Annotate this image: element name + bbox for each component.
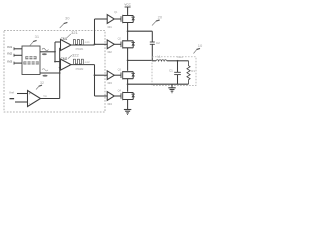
wire buffer4 to gate (114, 95, 121, 97)
svg-text:IN2: IN2 (7, 52, 12, 56)
opamp input wire + (17, 93, 28, 95)
input wire 3 (14, 62, 22, 64)
svg-text:C1: C1 (169, 69, 173, 73)
carrier value smudge (42, 53, 47, 55)
transistor Q3 (121, 71, 133, 79)
wire bottom rail node B to load (128, 83, 189, 85)
node carrier-top junction (54, 51, 56, 53)
VCC stem (127, 7, 129, 16)
transistor Q1 (121, 15, 133, 23)
node signal-feedback junction (59, 72, 61, 74)
label 321 leader (67, 34, 71, 38)
wire pwm2 bus vertical (94, 65, 96, 96)
node AB junction (127, 60, 129, 62)
VCC bar (125, 6, 131, 8)
svg-text:PWM1: PWM1 (76, 47, 84, 51)
input terminal 1 tick (13, 47, 15, 50)
label 32 leader (36, 86, 39, 90)
node pwm1-buffer2 junction (94, 43, 96, 45)
svg-text:L1: L1 (157, 55, 161, 59)
svg-text:out1: out1 (85, 41, 90, 44)
transistor Q4 (121, 92, 133, 100)
feedback squiggle mark (42, 69, 48, 71)
wire carrier out of block (40, 51, 55, 53)
label 31 leader (30, 41, 34, 45)
node carrier-comp2 junction (54, 61, 56, 63)
wire opamp output (41, 98, 60, 100)
wire M3 source to node B (127, 79, 129, 92)
node pwm2-buffer3 junction (94, 74, 96, 76)
wire pwm2 to buffer3 (95, 74, 108, 76)
block 31 text line2 (23, 61, 38, 64)
label 20 leader (152, 21, 157, 26)
wire carrier bus vertical (54, 42, 56, 62)
svg-text:331: 331 (107, 25, 112, 29)
feedback value smudge (43, 75, 48, 77)
op-amp 32 error amplifier (28, 91, 41, 107)
wire vout to resistor top (178, 60, 189, 62)
svg-text:Q3: Q3 (118, 69, 122, 72)
square wave symbol comp1 (73, 40, 83, 45)
wire pwm1 to buffer1 (95, 18, 108, 20)
wire M2 source to node AB (127, 48, 129, 71)
node Vout junction (177, 60, 179, 62)
wire signal bus vertical (59, 48, 61, 99)
svg-text:334: 334 (107, 102, 112, 106)
diode D1 (131, 16, 135, 23)
label 10 leader (194, 49, 198, 53)
diode D3 (131, 72, 135, 79)
dashed box 10 (output filter) (152, 57, 196, 86)
square wave symbol comp2 (73, 59, 83, 64)
wire pwm1 bus vertical (94, 19, 96, 45)
wire inductor to vout node (167, 60, 178, 62)
node B junction (127, 83, 129, 85)
inductor L1 (156, 60, 167, 61)
wire node AB to filter (128, 59, 153, 61)
comparator 322 (61, 59, 72, 70)
opamp input wire - (15, 101, 28, 103)
buffer 333 (107, 71, 114, 80)
wire signal to comp1 - (60, 47, 61, 49)
svg-text:CM2: CM2 (61, 57, 68, 61)
sine wave symbol (42, 48, 48, 51)
ground (output) (168, 88, 175, 93)
wire node A to cap (128, 30, 153, 32)
wire cap C2 drop (151, 31, 153, 42)
transistor Q2 (121, 40, 133, 48)
svg-text:Vm: Vm (43, 94, 47, 98)
wire comp1 output (71, 44, 95, 46)
input terminal 2 tick (13, 54, 15, 57)
wire feedback out of block bottom (40, 72, 60, 74)
wire filter node to inductor (152, 60, 156, 62)
capacitor C2 (150, 42, 155, 44)
svg-text:IN1: IN1 (7, 45, 12, 49)
svg-text:Vref: Vref (9, 90, 14, 94)
opamp input dash label (10, 98, 15, 99)
svg-text:Q2: Q2 (118, 38, 122, 41)
resistor R1 (187, 61, 190, 84)
svg-text:322: 322 (72, 53, 79, 58)
diode D2 (131, 41, 135, 48)
input terminal 3 tick (13, 62, 15, 65)
svg-text:333: 333 (107, 81, 112, 85)
svg-text:R1: R1 (191, 69, 195, 73)
svg-text:332: 332 (107, 50, 112, 54)
svg-text:20: 20 (158, 15, 163, 20)
node filter-in junction (151, 60, 153, 62)
capacitor C1 lead top (177, 61, 179, 73)
svg-text:out2: out2 (85, 61, 90, 64)
wire carrier to comp1 + (55, 41, 61, 43)
buffer 334 (107, 92, 114, 101)
wire buffer3 to gate (114, 74, 121, 76)
input wire 1 (14, 48, 22, 50)
buffer 332 (107, 40, 114, 49)
svg-text:PWM2: PWM2 (76, 67, 84, 71)
svg-text:10: 10 (198, 43, 203, 48)
svg-text:Vout: Vout (177, 55, 183, 59)
wire M4 source to ground (127, 100, 129, 110)
dashed box 30 (modulator section) (4, 31, 105, 113)
block 31 (triangle wave generator) (22, 46, 40, 75)
wire cap C2 to filter node (151, 44, 153, 60)
svg-text:+: + (29, 92, 31, 96)
svg-text:-: - (29, 102, 30, 106)
label 30 leader (60, 23, 65, 28)
node A junction (127, 30, 129, 32)
comparator 321 (61, 40, 72, 51)
label 322 leader (68, 55, 72, 58)
svg-text:321: 321 (71, 30, 78, 35)
node signal-comp2 junction (59, 67, 61, 69)
svg-text:30: 30 (65, 16, 70, 21)
wire signal to comp2 - (60, 67, 61, 69)
wire buffer1 to gate (114, 18, 121, 20)
buffer 331 (107, 15, 114, 24)
svg-text:31: 31 (35, 34, 40, 39)
ground (bridge) (124, 110, 131, 115)
diode D4 (131, 93, 135, 100)
svg-text:IN3: IN3 (7, 60, 12, 64)
capacitor C1 lead bottom (177, 75, 179, 84)
wire M1 source to node A (127, 23, 129, 41)
wire carrier to comp2 + (55, 61, 61, 63)
input wire 2 (14, 54, 22, 56)
svg-text:VCC: VCC (124, 2, 131, 6)
svg-text:32: 32 (40, 81, 44, 85)
wire pwm1 to buffer2 (95, 43, 108, 45)
svg-text:Q4: Q4 (118, 89, 122, 92)
wire buffer2 to gate (114, 43, 121, 45)
wire pwm2 to buffer4 (95, 95, 108, 97)
ground (output) stem (171, 84, 173, 88)
wire comp2 output (71, 64, 95, 66)
capacitor C1 (174, 72, 181, 74)
block 31 text line1 (25, 56, 36, 59)
svg-text:CM1: CM1 (61, 37, 68, 41)
svg-text:C2: C2 (156, 41, 160, 45)
